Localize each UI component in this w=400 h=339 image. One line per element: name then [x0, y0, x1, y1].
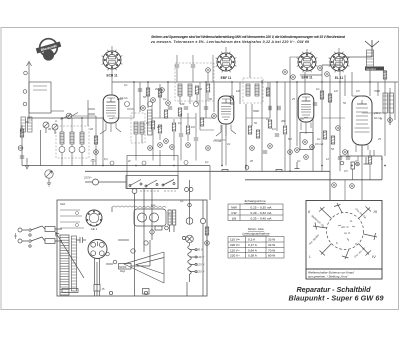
svg-text:0,17 A: 0,17 A: [248, 243, 258, 247]
svg-text:300: 300: [281, 119, 286, 123]
svg-text:KW: KW: [232, 211, 237, 215]
svg-text:70 W: 70 W: [268, 248, 275, 252]
svg-text:U: U: [168, 212, 170, 216]
svg-text:0,1: 0,1: [317, 137, 321, 141]
svg-text:Ant. O.: Ant. O.: [340, 225, 349, 229]
svg-text:ca. O.: ca. O.: [344, 231, 351, 235]
svg-text:0,1: 0,1: [297, 159, 301, 163]
svg-text:0,5: 0,5: [356, 89, 360, 93]
svg-text:LW: LW: [232, 216, 236, 220]
svg-text:EFM 11: EFM 11: [302, 76, 313, 80]
svg-text:50000: 50000: [119, 266, 127, 269]
svg-text:Strom- bzw.: Strom- bzw.: [248, 227, 264, 231]
svg-text:500: 500: [25, 120, 30, 124]
svg-text:0,1: 0,1: [146, 121, 150, 125]
svg-text:0,25 – 0,40 mA: 0,25 – 0,40 mA: [251, 216, 273, 220]
svg-text:MW: MW: [231, 205, 237, 209]
svg-text:IV: IV: [372, 254, 376, 259]
svg-text:0,5: 0,5: [344, 169, 348, 173]
svg-text:Netzant.: Netzant.: [366, 67, 377, 71]
svg-text:0,2: 0,2: [178, 121, 182, 125]
svg-text:110 V~: 110 V~: [230, 248, 240, 252]
svg-text:Tr: Tr: [380, 117, 382, 121]
svg-text:AE 1: AE 1: [91, 227, 98, 231]
svg-text:Schwingströme: Schwingströme: [244, 199, 265, 203]
svg-text:0,5: 0,5: [300, 117, 304, 121]
svg-text:100: 100: [180, 102, 185, 106]
svg-text:33 W: 33 W: [268, 238, 275, 242]
svg-text:A: A: [54, 119, 57, 123]
svg-text:Tr.: Tr.: [355, 242, 358, 246]
svg-text:220V~: 220V~: [83, 176, 93, 180]
svg-text:0,29 – 0,32 mA: 0,29 – 0,32 mA: [251, 211, 273, 215]
svg-text:0,6 mA: 0,6 mA: [315, 142, 323, 146]
svg-text:6,3: 6,3: [104, 157, 108, 161]
svg-text:25: 25: [291, 97, 295, 101]
svg-text:aus gesehen. / Stellung „Kurz“: aus gesehen. / Stellung „Kurz“: [308, 275, 349, 279]
svg-text:Regl.: Regl.: [120, 270, 126, 273]
svg-text:G.: G.: [350, 219, 353, 223]
svg-text:Lsp.: Lsp.: [151, 203, 156, 207]
svg-text:0,1: 0,1: [180, 199, 184, 203]
svg-text:K.: K.: [336, 241, 339, 245]
svg-text:0,5: 0,5: [355, 159, 359, 163]
svg-text:5000: 5000: [253, 109, 259, 113]
svg-text:0,1: 0,1: [266, 117, 270, 121]
svg-text:0,38 A: 0,38 A: [248, 254, 258, 258]
svg-text:zu messen. Toleranzen ± 5%.: zu messen. Toleranzen ± 5%. Leerlaufstro…: [150, 40, 309, 44]
svg-text:25: 25: [377, 137, 381, 141]
svg-text:EBF 11: EBF 11: [221, 76, 232, 80]
svg-text:110 V=: 110 V=: [230, 238, 240, 242]
svg-text:0,3 A: 0,3 A: [248, 238, 256, 242]
svg-text:0,15 – 0,35 mA: 0,15 – 0,35 mA: [251, 205, 273, 209]
svg-text:0,1: 0,1: [316, 87, 320, 91]
svg-text:Blaupunkt - Super 6 GW 69: Blaupunkt - Super 6 GW 69: [289, 294, 384, 303]
svg-text:0,1: 0,1: [205, 160, 209, 164]
svg-text:Ströme und Spannungen sind bei: Ströme und Spannungen sind bei Wellensch…: [151, 35, 346, 39]
svg-text:ECH: ECH: [117, 97, 123, 101]
svg-text:34 W: 34 W: [268, 243, 275, 247]
svg-text:7000: 7000: [374, 89, 380, 93]
svg-text:110 V: 110 V: [197, 255, 205, 259]
svg-text:Leistungsaufnahme: Leistungsaufnahme: [242, 232, 269, 236]
svg-text:220 V~: 220 V~: [230, 254, 240, 258]
svg-text:7,5 mA: 7,5 mA: [213, 139, 221, 143]
svg-text:0,1: 0,1: [163, 97, 167, 101]
svg-text:Netz: Netz: [60, 202, 66, 206]
svg-text:220 V: 220 V: [196, 270, 205, 274]
svg-text:220 V=: 220 V=: [230, 243, 240, 247]
svg-text:I.: I.: [309, 254, 311, 259]
svg-text:0,64 A: 0,64 A: [248, 248, 258, 252]
svg-text:80 W: 80 W: [268, 254, 275, 258]
svg-text:0,3: 0,3: [272, 127, 276, 131]
svg-text:0,1: 0,1: [124, 83, 128, 87]
svg-text:0,1: 0,1: [227, 142, 231, 146]
svg-text:125 V: 125 V: [197, 262, 205, 266]
svg-text:20: 20: [89, 127, 93, 131]
svg-text:EL 11: EL 11: [335, 76, 343, 80]
